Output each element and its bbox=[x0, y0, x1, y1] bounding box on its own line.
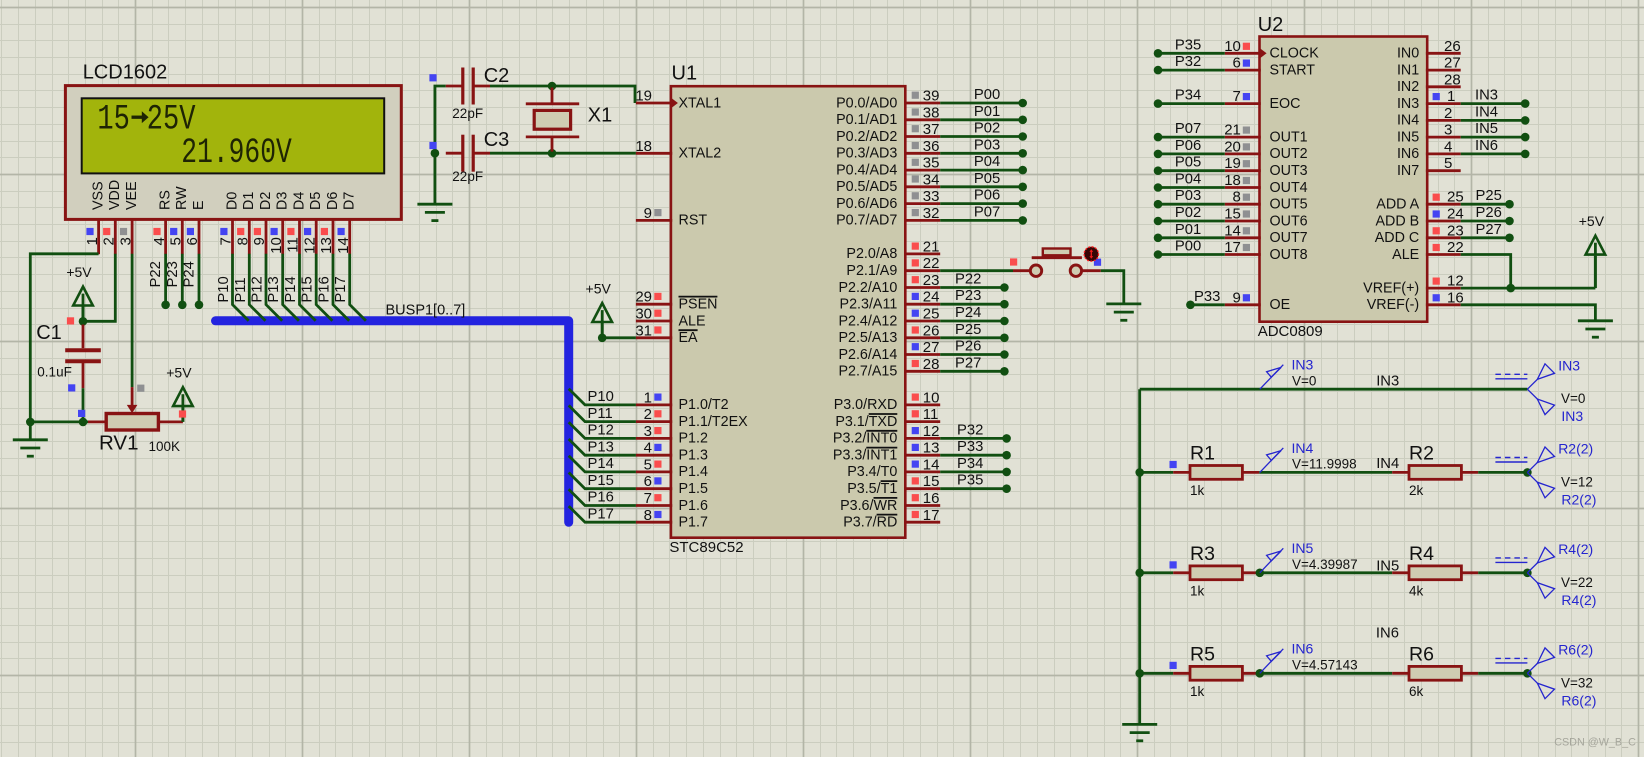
net label IN5 bbox=[1376, 558, 1399, 574]
wire IN4 (U2) bbox=[1461, 104, 1530, 124]
svg-text:V=0: V=0 bbox=[1561, 391, 1585, 406]
svg-text:P2.1/A9: P2.1/A9 bbox=[846, 263, 897, 279]
LCD pin 6 bbox=[184, 219, 201, 254]
svg-text:D0: D0 bbox=[224, 192, 240, 210]
svg-text:1: 1 bbox=[84, 237, 101, 245]
svg-text:RW: RW bbox=[174, 186, 190, 210]
svg-text:P10: P10 bbox=[588, 389, 614, 405]
wire EA bbox=[602, 336, 636, 339]
svg-text:P16: P16 bbox=[317, 276, 333, 302]
wire P15 (bus to U1 pin 6) bbox=[569, 473, 636, 489]
wire P14 (bus to U1 pin 5) bbox=[569, 456, 636, 472]
probe IN6 (mid) bbox=[1260, 641, 1358, 674]
svg-text:+5V: +5V bbox=[1579, 213, 1605, 229]
svg-text:8: 8 bbox=[1233, 189, 1241, 206]
svg-text:START: START bbox=[1270, 62, 1316, 78]
svg-text:R4: R4 bbox=[1409, 543, 1434, 565]
svg-text:P05: P05 bbox=[974, 171, 1000, 187]
svg-text:+5V: +5V bbox=[66, 264, 92, 280]
wire P05 (U2) bbox=[1154, 155, 1225, 175]
wire P04 (U1 P0.4) bbox=[940, 154, 1027, 174]
svg-text:22: 22 bbox=[923, 255, 940, 272]
svg-text:28: 28 bbox=[1444, 71, 1461, 88]
wire VREF(+) to +5V bbox=[1461, 287, 1596, 290]
svg-text:IN2: IN2 bbox=[1397, 79, 1419, 95]
svg-text:P1.0/T2: P1.0/T2 bbox=[679, 397, 729, 413]
svg-text:IN4: IN4 bbox=[1376, 456, 1399, 472]
svg-text:LCD1602: LCD1602 bbox=[83, 62, 168, 84]
svg-text:VDD: VDD bbox=[107, 180, 123, 210]
svg-text:19: 19 bbox=[1224, 155, 1241, 172]
resistor R3 1k bbox=[1173, 543, 1259, 599]
probe R2(2) (end) bbox=[1495, 441, 1596, 508]
svg-text:P02: P02 bbox=[974, 121, 1000, 137]
svg-text:IN6: IN6 bbox=[1292, 641, 1314, 657]
svg-text:P06: P06 bbox=[1175, 138, 1201, 154]
svg-text:1: 1 bbox=[644, 389, 652, 406]
svg-text:35: 35 bbox=[923, 155, 940, 172]
svg-text:P24: P24 bbox=[182, 261, 198, 287]
svg-text:36: 36 bbox=[923, 138, 940, 155]
svg-text:32: 32 bbox=[923, 205, 940, 222]
svg-text:P26: P26 bbox=[955, 339, 981, 355]
svg-text:R4(2): R4(2) bbox=[1558, 541, 1593, 557]
svg-text:C1: C1 bbox=[36, 322, 62, 344]
LCD pin 10 bbox=[268, 219, 285, 254]
svg-text:D7: D7 bbox=[342, 192, 358, 210]
svg-text:VEE: VEE bbox=[124, 181, 140, 210]
svg-text:VSS: VSS bbox=[91, 181, 107, 210]
svg-text:P1.5: P1.5 bbox=[679, 481, 708, 497]
svg-text:IN3: IN3 bbox=[1292, 357, 1314, 373]
svg-text:IN6: IN6 bbox=[1475, 138, 1498, 154]
wire P07 (U1 P0.7) bbox=[940, 204, 1027, 224]
svg-text:P23: P23 bbox=[955, 288, 981, 304]
svg-text:+5V: +5V bbox=[586, 281, 612, 297]
svg-text:P00: P00 bbox=[974, 87, 1000, 103]
wire P24 (U1 pin 25) bbox=[940, 305, 1009, 325]
LCD pin 4 bbox=[151, 219, 168, 254]
svg-text:V=32: V=32 bbox=[1561, 675, 1593, 690]
svg-text:7: 7 bbox=[1233, 88, 1241, 105]
svg-text:IN7: IN7 bbox=[1397, 163, 1419, 179]
svg-text:15: 15 bbox=[923, 473, 940, 490]
wire P16 (bus to U1 pin 7) bbox=[569, 489, 636, 505]
svg-text:D5: D5 bbox=[308, 192, 324, 210]
bus BUSP1[0..7] bbox=[216, 302, 569, 522]
svg-text:VREF(-): VREF(-) bbox=[1367, 297, 1419, 313]
svg-text:13: 13 bbox=[923, 440, 940, 457]
svg-text:V=4.57143: V=4.57143 bbox=[1292, 657, 1358, 672]
wire P35 (U1 pin 15) bbox=[940, 473, 1011, 493]
svg-text:P01: P01 bbox=[1175, 222, 1201, 238]
junction rail/RV1 bbox=[26, 418, 35, 427]
svg-text:CLOCK: CLOCK bbox=[1270, 46, 1320, 62]
svg-text:P27: P27 bbox=[1476, 222, 1502, 238]
svg-text:26: 26 bbox=[923, 322, 940, 339]
svg-text:ADD B: ADD B bbox=[1375, 213, 1419, 229]
wire P03 (U2) bbox=[1154, 188, 1225, 208]
wire R4 to probe R4(2) bbox=[1478, 571, 1527, 574]
svg-text:9: 9 bbox=[1233, 289, 1241, 306]
svg-text:27: 27 bbox=[1444, 55, 1461, 72]
wire P12 (bus to U1 pin 3) bbox=[569, 422, 636, 438]
svg-text:P13: P13 bbox=[588, 439, 614, 455]
svg-text:22pF: 22pF bbox=[452, 106, 483, 121]
wire R3 to R4 (net IN5) bbox=[1259, 571, 1392, 574]
wire P35 (U2) bbox=[1154, 37, 1225, 57]
svg-text:28: 28 bbox=[923, 356, 940, 373]
svg-text:9: 9 bbox=[644, 205, 652, 222]
svg-text:P25: P25 bbox=[1476, 188, 1502, 204]
svg-text:P15: P15 bbox=[588, 473, 614, 489]
svg-text:OE: OE bbox=[1270, 297, 1291, 313]
resistor R2 2k bbox=[1392, 443, 1478, 499]
ground (resistor rail) bbox=[1122, 724, 1157, 740]
wire IN3 (U2) bbox=[1461, 88, 1530, 108]
probe IN5 (mid) bbox=[1260, 540, 1358, 573]
svg-text:4: 4 bbox=[151, 237, 168, 245]
resistor R6 6k bbox=[1392, 643, 1478, 699]
svg-text:P2.7/A15: P2.7/A15 bbox=[838, 364, 897, 380]
svg-text:P15: P15 bbox=[300, 276, 316, 302]
net label IN3 bbox=[1376, 373, 1399, 389]
svg-text:OUT1: OUT1 bbox=[1270, 129, 1308, 145]
probe IN4 (mid) bbox=[1260, 440, 1357, 473]
svg-text:27: 27 bbox=[923, 339, 940, 356]
wire P13 (LCD D3 to bus) bbox=[266, 254, 299, 321]
junction rail IN4 bbox=[1135, 468, 1144, 477]
svg-text:ADC0809: ADC0809 bbox=[1258, 323, 1323, 340]
svg-text:31: 31 bbox=[635, 322, 652, 339]
svg-text:OUT8: OUT8 bbox=[1270, 247, 1308, 263]
ground (button) bbox=[1106, 304, 1141, 320]
push button bbox=[1013, 247, 1101, 277]
wire P06 (U2) bbox=[1154, 138, 1225, 158]
svg-text:U1: U1 bbox=[672, 63, 698, 85]
svg-text:P1.2: P1.2 bbox=[679, 431, 708, 447]
svg-text:37: 37 bbox=[923, 121, 940, 138]
svg-text:24: 24 bbox=[923, 289, 940, 306]
svg-text:R6(2): R6(2) bbox=[1558, 641, 1593, 657]
svg-text:P0.2/AD2: P0.2/AD2 bbox=[836, 129, 897, 145]
svg-text:P22: P22 bbox=[955, 272, 981, 288]
svg-text:XTAL2: XTAL2 bbox=[679, 146, 722, 162]
svg-text:X1: X1 bbox=[588, 105, 612, 127]
svg-text:P32: P32 bbox=[957, 422, 983, 438]
svg-text:P2.2/A10: P2.2/A10 bbox=[838, 280, 897, 296]
svg-text:IN5: IN5 bbox=[1292, 540, 1314, 556]
svg-text:30: 30 bbox=[635, 306, 652, 323]
svg-text:P02: P02 bbox=[1175, 205, 1201, 221]
junction rail IN6 bbox=[1135, 669, 1144, 678]
svg-text:IN4: IN4 bbox=[1475, 104, 1498, 120]
junction C1/RV1 wire bbox=[79, 418, 88, 427]
wire P32 (U1 pin 12) bbox=[940, 422, 1011, 442]
svg-text:4: 4 bbox=[1444, 138, 1452, 155]
svg-text:9: 9 bbox=[251, 237, 268, 245]
wire P14 (LCD D4 to bus) bbox=[283, 254, 316, 321]
svg-text:1k: 1k bbox=[1190, 483, 1205, 498]
svg-text:29: 29 bbox=[635, 289, 652, 306]
wire VREF(-) to ground bbox=[1461, 305, 1596, 321]
crystal X1 bbox=[526, 88, 612, 152]
svg-text:0.1uF: 0.1uF bbox=[37, 365, 72, 380]
wire P00 (U1 P0.0) bbox=[940, 87, 1027, 107]
svg-text:P35: P35 bbox=[1175, 37, 1201, 53]
svg-text:33: 33 bbox=[923, 188, 940, 205]
power +5V (RV1) bbox=[166, 365, 192, 422]
svg-text:P2.0/A8: P2.0/A8 bbox=[846, 246, 897, 262]
wire P27 (U2 ADD) bbox=[1461, 222, 1514, 242]
wire P32 (U2) bbox=[1154, 54, 1225, 74]
wire U2 ALE to VREF(+) bbox=[1461, 255, 1511, 289]
wire rail to R3 bbox=[1140, 561, 1177, 573]
svg-text:PSEN: PSEN bbox=[679, 297, 718, 313]
net label IN6 bbox=[1376, 625, 1399, 641]
wire rail to RV1 bbox=[30, 420, 88, 423]
wire P26 (U2 ADD) bbox=[1461, 205, 1514, 225]
ground (C2/C3) bbox=[417, 204, 452, 220]
svg-text:P3.4/T0: P3.4/T0 bbox=[847, 464, 897, 480]
net label IN4 bbox=[1376, 456, 1399, 472]
svg-text:P33: P33 bbox=[957, 439, 983, 455]
svg-text:P24: P24 bbox=[955, 305, 981, 321]
LCD pin 2 bbox=[101, 219, 118, 254]
LCD pin 14 bbox=[335, 219, 352, 254]
wire P17 (bus to U1 pin 8) bbox=[569, 506, 636, 522]
svg-text:21: 21 bbox=[1224, 122, 1241, 139]
svg-text:P34: P34 bbox=[1175, 88, 1201, 104]
wire P17 (LCD D7 to bus) bbox=[333, 254, 366, 321]
capacitor C2 22pF bbox=[446, 65, 509, 121]
wire C3 to XTAL2 bbox=[490, 152, 636, 155]
svg-text:P11: P11 bbox=[588, 406, 613, 422]
capacitor C3 22pF bbox=[446, 129, 509, 184]
svg-text:6: 6 bbox=[184, 237, 201, 245]
svg-text:21.960V: 21.960V bbox=[181, 133, 291, 173]
wire C2 to XTAL1 bbox=[490, 86, 635, 103]
svg-text:P3.1/TXD: P3.1/TXD bbox=[835, 414, 897, 430]
svg-text:R2: R2 bbox=[1409, 443, 1434, 465]
wire P02 (U1 P0.2) bbox=[940, 121, 1027, 141]
wire P11 (LCD D1 to bus) bbox=[233, 254, 266, 321]
svg-text:V=0: V=0 bbox=[1292, 373, 1316, 388]
svg-text:14: 14 bbox=[1224, 222, 1241, 239]
wire resistor-network rail bbox=[1138, 389, 1141, 724]
svg-text:P04: P04 bbox=[1175, 172, 1201, 188]
svg-text:P10: P10 bbox=[216, 276, 232, 302]
svg-text:15: 15 bbox=[97, 100, 129, 140]
svg-text:P2.3/A11: P2.3/A11 bbox=[840, 297, 898, 313]
svg-text:V=4.39987: V=4.39987 bbox=[1292, 557, 1358, 572]
svg-text:P0.0/AD0: P0.0/AD0 bbox=[836, 95, 897, 111]
wire P12 (LCD D2 to bus) bbox=[250, 254, 283, 321]
svg-text:2: 2 bbox=[1444, 105, 1452, 122]
svg-text:P3.6/WR: P3.6/WR bbox=[840, 498, 897, 514]
svg-text:10: 10 bbox=[1224, 38, 1241, 55]
svg-text:R2(2): R2(2) bbox=[1561, 491, 1596, 507]
svg-text:OUT5: OUT5 bbox=[1270, 197, 1308, 213]
svg-text:4: 4 bbox=[644, 440, 652, 457]
svg-text:CSDN @W_B_C: CSDN @W_B_C bbox=[1554, 737, 1636, 749]
svg-text:D3: D3 bbox=[275, 192, 291, 210]
resistor R5 1k bbox=[1173, 643, 1259, 699]
svg-text:P26: P26 bbox=[1476, 205, 1502, 221]
wire P10 (LCD D0 to bus) bbox=[216, 254, 249, 321]
wire IN5 (U2) bbox=[1461, 121, 1530, 141]
svg-text:IN3: IN3 bbox=[1561, 408, 1583, 424]
svg-text:U2: U2 bbox=[1258, 14, 1284, 36]
junction EA/+5V bbox=[598, 334, 607, 343]
microcontroller U1 STC89C52 bbox=[635, 63, 940, 557]
svg-text:P12: P12 bbox=[250, 276, 266, 302]
LCD pin 13 bbox=[318, 219, 335, 254]
svg-text:VREF(+): VREF(+) bbox=[1363, 280, 1419, 296]
svg-text:R1: R1 bbox=[1190, 443, 1215, 465]
wire P24 (LCD pin 6) bbox=[182, 254, 204, 309]
LCD display LCD1602 bbox=[65, 62, 401, 220]
svg-text:IN1: IN1 bbox=[1397, 62, 1419, 78]
power +5V (C1 node) bbox=[66, 264, 92, 321]
svg-text:R5: R5 bbox=[1190, 643, 1215, 665]
svg-text:ALE: ALE bbox=[1392, 247, 1419, 263]
svg-text:P0.6/AD6: P0.6/AD6 bbox=[836, 196, 897, 212]
svg-text:26: 26 bbox=[1444, 38, 1461, 55]
junction rail IN5 bbox=[1135, 569, 1144, 578]
wire P03 (U1 P0.3) bbox=[940, 137, 1027, 157]
svg-text:P06: P06 bbox=[974, 188, 1000, 204]
svg-text:11: 11 bbox=[285, 237, 302, 253]
wire U1 pin22 to button bbox=[940, 258, 1017, 270]
svg-text:10: 10 bbox=[268, 237, 285, 254]
svg-text:1k: 1k bbox=[1190, 684, 1205, 699]
svg-text:P35: P35 bbox=[957, 473, 983, 489]
svg-text:25: 25 bbox=[923, 306, 940, 323]
svg-text:13: 13 bbox=[318, 237, 335, 254]
wire R2 to probe R2(2) bbox=[1478, 471, 1527, 474]
svg-text:8: 8 bbox=[235, 237, 252, 245]
svg-text:OUT6: OUT6 bbox=[1270, 213, 1308, 229]
svg-text:21: 21 bbox=[923, 238, 940, 255]
svg-text:4k: 4k bbox=[1409, 584, 1424, 599]
svg-text:P3.7/RD: P3.7/RD bbox=[843, 515, 897, 531]
svg-text:R3: R3 bbox=[1190, 543, 1215, 565]
svg-text:P13: P13 bbox=[266, 276, 282, 302]
svg-text:P1.3: P1.3 bbox=[679, 448, 708, 464]
svg-text:IN3: IN3 bbox=[1558, 357, 1580, 373]
svg-text:EOC: EOC bbox=[1270, 96, 1301, 112]
svg-text:IN5: IN5 bbox=[1397, 129, 1419, 145]
svg-text:P0.4/AD4: P0.4/AD4 bbox=[836, 162, 897, 178]
svg-text:P07: P07 bbox=[1175, 121, 1201, 137]
svg-text:P04: P04 bbox=[974, 154, 1000, 170]
svg-text:12: 12 bbox=[923, 423, 940, 440]
wire rail to R5 bbox=[1140, 662, 1177, 674]
svg-text:P22: P22 bbox=[148, 261, 164, 287]
power +5V (VREF+) bbox=[1579, 213, 1605, 288]
svg-text:P32: P32 bbox=[1175, 54, 1201, 70]
svg-text:6: 6 bbox=[1233, 55, 1241, 72]
LCD pin 11 bbox=[285, 219, 302, 254]
probe IN3 (end) bbox=[1495, 357, 1585, 424]
svg-text:V=22: V=22 bbox=[1561, 575, 1593, 590]
svg-text:C3: C3 bbox=[484, 129, 510, 151]
wire P04 (U2) bbox=[1154, 172, 1225, 192]
svg-text:P1.7: P1.7 bbox=[679, 515, 708, 531]
svg-text:P00: P00 bbox=[1175, 239, 1201, 255]
svg-text:3: 3 bbox=[1444, 122, 1452, 139]
watermark bbox=[1554, 737, 1636, 749]
svg-text:5: 5 bbox=[644, 456, 652, 473]
svg-text:OUT3: OUT3 bbox=[1270, 163, 1308, 179]
svg-text:1: 1 bbox=[1447, 88, 1455, 105]
svg-text:18: 18 bbox=[1224, 172, 1241, 189]
svg-text:7: 7 bbox=[218, 237, 235, 245]
svg-text:OUT2: OUT2 bbox=[1270, 146, 1308, 162]
svg-text:P1.6: P1.6 bbox=[679, 498, 708, 514]
svg-text:EA: EA bbox=[679, 330, 699, 346]
svg-text:P05: P05 bbox=[1175, 155, 1201, 171]
svg-text:R6: R6 bbox=[1409, 643, 1434, 665]
wire VSS (pin1) to ground rail bbox=[30, 254, 98, 440]
svg-text:23: 23 bbox=[923, 272, 940, 289]
svg-text:RS: RS bbox=[158, 190, 174, 210]
svg-text:14: 14 bbox=[923, 456, 940, 473]
svg-text:7: 7 bbox=[644, 490, 652, 507]
svg-text:P0.7/AD7: P0.7/AD7 bbox=[836, 213, 897, 229]
svg-text:19: 19 bbox=[635, 88, 652, 105]
svg-text:IN0: IN0 bbox=[1397, 46, 1419, 62]
svg-text:5: 5 bbox=[168, 237, 185, 245]
svg-text:D2: D2 bbox=[258, 192, 274, 210]
svg-text:P0.5/AD5: P0.5/AD5 bbox=[836, 179, 897, 195]
svg-text:P3.0/RXD: P3.0/RXD bbox=[834, 397, 898, 413]
svg-text:100K: 100K bbox=[149, 439, 181, 454]
svg-text:P25: P25 bbox=[955, 322, 981, 338]
svg-text:IN3: IN3 bbox=[1397, 96, 1419, 112]
wire rail to R1 bbox=[1140, 461, 1177, 473]
svg-text:P17: P17 bbox=[588, 507, 614, 523]
svg-text:XTAL1: XTAL1 bbox=[679, 95, 722, 111]
svg-text:P23: P23 bbox=[165, 261, 181, 287]
ADC U2 ADC0809 bbox=[1224, 14, 1463, 340]
svg-text:IN4: IN4 bbox=[1397, 113, 1419, 129]
svg-text:STC89C52: STC89C52 bbox=[669, 539, 743, 556]
svg-text:16: 16 bbox=[923, 490, 940, 507]
svg-text:38: 38 bbox=[923, 104, 940, 121]
svg-text:39: 39 bbox=[923, 88, 940, 105]
LCD pin 9 bbox=[251, 219, 268, 254]
svg-text:R2(2): R2(2) bbox=[1558, 441, 1593, 457]
junction C1/+5V bbox=[79, 317, 88, 326]
svg-text:P3.3/INT1: P3.3/INT1 bbox=[833, 448, 897, 464]
wire P27 (U1 pin 28) bbox=[940, 355, 1009, 375]
wire P11 (bus to U1 pin 2) bbox=[569, 405, 636, 421]
resistor R4 4k bbox=[1392, 543, 1478, 599]
svg-text:2k: 2k bbox=[1409, 483, 1424, 498]
svg-text:3: 3 bbox=[117, 237, 134, 245]
svg-text:P03: P03 bbox=[974, 137, 1000, 153]
svg-text:P16: P16 bbox=[588, 490, 614, 506]
svg-text:18: 18 bbox=[635, 138, 652, 155]
LCD pin 8 bbox=[235, 219, 252, 254]
wire VEE (pin3) to RV1 wiper bbox=[127, 254, 145, 413]
wire button to ground bbox=[1101, 271, 1124, 304]
wire P23 (U1 pin 24) bbox=[940, 288, 1009, 308]
wire P15 (LCD D5 to bus) bbox=[300, 254, 333, 321]
wire P33 (U1 pin 13) bbox=[940, 439, 1011, 459]
